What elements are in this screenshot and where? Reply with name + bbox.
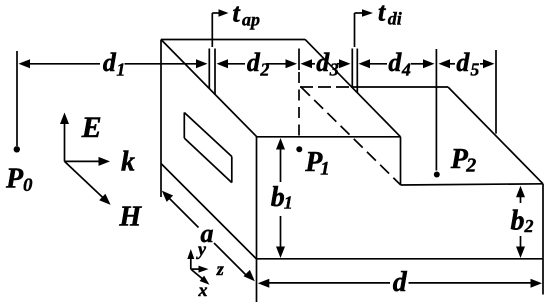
svg-text:3: 3 (329, 60, 339, 80)
svg-text:di: di (388, 9, 402, 29)
svg-text:E: E (81, 111, 102, 144)
svg-text:x: x (198, 280, 208, 300)
svg-text:t: t (233, 0, 241, 28)
svg-text:0: 0 (23, 175, 33, 196)
svg-text:5: 5 (470, 60, 479, 80)
svg-text:2: 2 (465, 155, 476, 177)
svg-text:ap: ap (242, 10, 260, 30)
svg-text:1: 1 (284, 193, 293, 213)
svg-text:z: z (216, 259, 224, 279)
svg-text:1: 1 (320, 158, 330, 179)
svg-text:k: k (121, 147, 135, 178)
svg-text:d: d (103, 48, 117, 77)
svg-text:y: y (196, 239, 207, 259)
svg-text:d: d (393, 267, 408, 298)
svg-text:2: 2 (259, 60, 269, 80)
svg-text:d: d (388, 48, 402, 77)
svg-text:2: 2 (524, 216, 534, 236)
svg-text:4: 4 (401, 60, 411, 80)
svg-text:1: 1 (116, 60, 125, 80)
svg-text:P: P (5, 163, 24, 194)
svg-text:b: b (271, 182, 285, 213)
svg-text:d: d (316, 48, 330, 77)
svg-text:t: t (378, 0, 386, 27)
svg-text:H: H (118, 202, 142, 233)
svg-text:d: d (247, 48, 261, 77)
svg-text:b: b (511, 206, 525, 237)
svg-text:d: d (456, 48, 470, 77)
